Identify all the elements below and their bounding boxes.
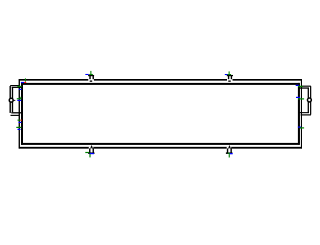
top tab T1 cutout: [88, 76, 94, 82]
node marker right hole blue: [296, 97, 300, 98]
top tab T2 cap: [227, 75, 233, 76]
bottom tab B1 left wall: [89, 148, 90, 152]
right bracket outer bottom: [301, 114, 311, 115]
node marker top-left corner green: [25, 78, 26, 81]
wire inner top edge: [21, 83, 300, 85]
top tab T2 foot: [228, 80, 231, 81]
node marker tab B2 blue: [230, 153, 233, 154]
node marker left mid red: [21, 120, 22, 121]
wire outer bottom edge: [19, 147, 302, 149]
node marker left hole green: [17, 98, 22, 99]
node marker tab T2 green cross: [228, 74, 232, 75]
bottom tab B1 cutout: [89, 147, 94, 153]
node marker left bracket top green: [17, 86, 21, 87]
node marker left bracket top blue: [19, 89, 22, 90]
left bracket inner bottom: [11, 112, 21, 113]
node marker tab T2 blue: [225, 74, 228, 75]
right bracket hole: [307, 98, 311, 102]
top tab T2 cutout: [227, 76, 233, 82]
bottom tab B2 left wall: [227, 148, 228, 152]
node marker tab B1 green stem: [89, 154, 90, 157]
wire inner right edge: [298, 83, 300, 145]
right bracket inner bottom: [300, 112, 309, 113]
node marker left lower blue: [18, 129, 21, 130]
bottom tab B2 right wall: [230, 148, 231, 152]
left bracket outer wall: [10, 86, 11, 113]
left bracket outer bottom: [11, 115, 20, 116]
bottom tab B1 hook tip: [91, 146, 93, 148]
node marker tab B2 green stem: [229, 154, 230, 157]
node marker tab B1 blue: [90, 153, 94, 154]
node marker top-left corner blue: [21, 82, 24, 83]
top tab T1 foot: [90, 80, 93, 81]
wire outer left edge: [19, 79, 20, 149]
node marker tab B1 green: [85, 152, 89, 153]
node marker right lower green: [300, 127, 304, 128]
bottom tab B1 foot: [88, 152, 94, 154]
wire inner left edge: [21, 83, 23, 145]
bottom tab B2 foot: [226, 152, 233, 154]
left bracket hole stub: [14, 99, 16, 102]
wire outer top edge: [19, 79, 302, 81]
wire inner bottom edge: [21, 143, 300, 145]
right bracket inner wall: [308, 88, 309, 113]
left bracket inner top: [12, 87, 22, 88]
node marker tab B2 green: [228, 153, 230, 154]
top tab T1 right wall: [93, 76, 94, 80]
right bracket inner top: [300, 87, 309, 88]
right bracket outer top: [302, 86, 311, 87]
node marker left hole blue: [17, 100, 21, 101]
node marker left mid green: [18, 120, 21, 121]
node marker right lower blue: [298, 127, 301, 128]
node marker tab T1 green cross: [89, 74, 93, 75]
top tab T1 left wall: [89, 76, 90, 80]
left bracket inner wall: [12, 87, 13, 112]
top tab T1 cap: [88, 75, 94, 76]
right bracket outer wall: [310, 86, 311, 114]
node marker right hole green: [298, 98, 304, 99]
node marker tab T1 blue: [85, 74, 88, 75]
bottom tab B2 cutout: [227, 147, 232, 153]
left bracket outer top: [10, 85, 19, 86]
bottom tab B2 hook tip: [229, 146, 231, 148]
node marker right bracket top blue: [296, 85, 299, 86]
node marker right bracket top green: [298, 86, 303, 87]
left bracket hole: [9, 98, 13, 102]
bottom tab B1 right wall: [93, 148, 94, 152]
wire outer right edge: [301, 79, 302, 149]
node marker left mid blue: [18, 122, 21, 123]
node marker top-left corner red: [24, 82, 26, 83]
top tab T2 left wall: [228, 76, 229, 80]
node marker left lower green: [16, 127, 21, 128]
top tab T2 right wall: [231, 76, 232, 80]
